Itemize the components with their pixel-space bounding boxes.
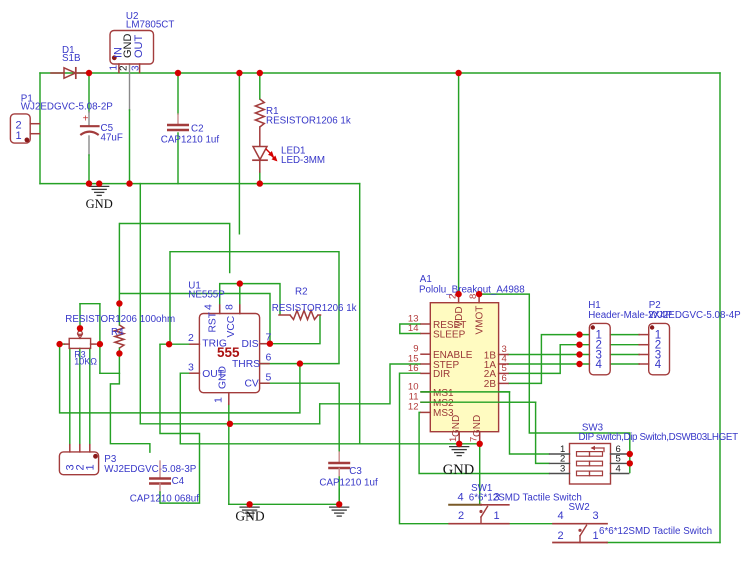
- svg-text:GND: GND: [443, 462, 474, 478]
- resistor R2 RESISTOR1206 1k: [272, 287, 357, 320]
- svg-text:C2: C2: [191, 124, 204, 135]
- wire R3 wiper column: [79, 304, 81, 331]
- wire U2 GND pin column to GND rail: [129, 64, 131, 184]
- potentiometer R3 10KQ: [65, 331, 98, 366]
- switch SW1 tactile: [449, 483, 582, 524]
- resistor R4 RESISTOR1206 100ohm: [65, 314, 175, 348]
- ground GND (555 rail): [235, 504, 264, 523]
- svg-text:H1: H1: [588, 300, 601, 311]
- svg-text:2: 2: [558, 530, 564, 542]
- wire THRS down + y=412.9 line + R3 left column: [60, 344, 300, 413]
- svg-text:RESISTOR1206 100ohm: RESISTOR1206 100ohm: [65, 314, 175, 325]
- svg-text:GND: GND: [451, 415, 462, 437]
- op-amp U1 NE555P (555 timer): [188, 281, 272, 405]
- svg-text:8: 8: [224, 304, 236, 310]
- wire CV row to C3 column: [260, 383, 339, 504]
- svg-text:47uF: 47uF: [101, 133, 123, 144]
- svg-text:DIR: DIR: [433, 369, 450, 380]
- svg-text:6*6*12SMD Tactile Switch: 6*6*12SMD Tactile Switch: [599, 526, 712, 537]
- connector H1 Header-Male-2X4P: [588, 300, 672, 375]
- svg-text:4: 4: [558, 510, 564, 522]
- capacitor C3 CAP1210 1uf: [319, 452, 378, 504]
- svg-text:CAP1210 1uf: CAP1210 1uf: [161, 134, 220, 145]
- svg-text:6: 6: [266, 352, 272, 364]
- capacitor C4 CAP1210 068uf: [130, 461, 199, 505]
- wire reg/R3 bracket y=303.7: [80, 303, 100, 305]
- IC A1 Pololu_Breakout_A4988: [408, 274, 525, 444]
- wire 1B to H1 pin3 row: [508, 354, 589, 356]
- svg-text:1: 1: [85, 464, 97, 470]
- svg-text:2: 2: [188, 332, 194, 344]
- svg-text:R4: R4: [111, 327, 124, 338]
- wire R3 left lead: [60, 343, 65, 345]
- wire x=360 GND column: [359, 184, 361, 444]
- svg-text:OUT: OUT: [133, 35, 145, 59]
- wire MS2 to DIP pin2: [421, 402, 550, 463]
- capacitor C2 CAP1210 1uf: [161, 124, 220, 146]
- wire DIR net to SW1: [400, 373, 450, 524]
- wire GND7 column to SW1 top: [479, 444, 481, 505]
- wire x=140 GND column: [139, 184, 141, 424]
- svg-text:GND: GND: [217, 366, 228, 389]
- wire H1 to P2 row2: [610, 344, 639, 346]
- svg-text:GND: GND: [235, 509, 264, 524]
- svg-text:1: 1: [593, 530, 599, 542]
- wire bottom GND rail y=504.3: [229, 503, 339, 505]
- svg-text:12: 12: [408, 402, 419, 413]
- wire MS1 to DIP pin1: [421, 392, 550, 454]
- wire C5 column: [88, 73, 90, 184]
- wire P3 pin columns to R3 underside: [70, 348, 90, 444]
- svg-text:16: 16: [408, 363, 419, 374]
- svg-text:10KΩ: 10KΩ: [74, 356, 97, 366]
- diode D1 S1B: [51, 45, 88, 78]
- svg-text:6*6*12SMD Tactile Switch: 6*6*12SMD Tactile Switch: [469, 492, 582, 503]
- svg-text:SLEEP: SLEEP: [433, 329, 466, 340]
- svg-text:5: 5: [266, 372, 272, 384]
- svg-text:C3: C3: [349, 466, 362, 477]
- wire 1A to H1 pin4 row: [508, 363, 589, 365]
- svg-text:A1: A1: [420, 274, 432, 285]
- svg-text:6: 6: [502, 373, 507, 384]
- wire right edge column x=720 (rail to SW2): [719, 73, 721, 543]
- svg-text:RESISTOR1206 1k: RESISTOR1206 1k: [266, 116, 351, 127]
- wire VMOT net to DIP commons: [479, 294, 630, 473]
- wire R3 right column: [99, 304, 101, 374]
- wire R2 right to DIS: [260, 315, 320, 344]
- wire SW2 bottom to right edge column: [607, 542, 720, 544]
- wire RESET-SLEEP tie U: [400, 324, 421, 334]
- wire R3R/R4 U-bottom y=373.3: [100, 372, 120, 374]
- svg-text:RST: RST: [208, 311, 219, 332]
- wire SW1 to SW2 link: [509, 523, 553, 525]
- wire GND branch y=423.8 to 555 gnd and step riser: [140, 404, 319, 424]
- wire MS2 overlay (over A4988 box): [421, 401, 536, 403]
- wire VCC/RST/R2 net y=283.6: [220, 284, 280, 315]
- svg-text:4: 4: [203, 304, 215, 310]
- capacitor C5 47uF: [80, 114, 123, 144]
- svg-text:14: 14: [408, 323, 419, 334]
- wire VDD column x=458.6: [458, 73, 460, 294]
- svg-text:C4: C4: [172, 476, 185, 487]
- wire GND line y=443.8 to A4988 GND pins: [180, 443, 479, 445]
- wire 2B to H1 pin1: [508, 335, 589, 384]
- svg-text:4: 4: [596, 359, 603, 371]
- svg-text:4: 4: [458, 491, 464, 503]
- regulator U2 LM7805CT: [109, 11, 175, 73]
- wire C2 column: [177, 73, 179, 184]
- wire STEP net y=403.8: [320, 364, 421, 404]
- svg-text:LM7805CT: LM7805CT: [126, 20, 174, 31]
- svg-text:CAP1210 068uf: CAP1210 068uf: [130, 494, 199, 505]
- wire THRS row: [260, 363, 339, 365]
- svg-text:+: +: [83, 114, 89, 125]
- svg-text:3: 3: [494, 491, 500, 503]
- wire R4 top net: corner to dangling end x=229.7: [119, 224, 229, 274]
- wire P1 column x=40: [39, 73, 41, 184]
- wire THRS-TRIG tie y=251.7: [170, 252, 339, 364]
- ground GND (A4988): [443, 444, 474, 478]
- wire MS1 overlay (over A4988 box): [421, 391, 510, 393]
- svg-text:R2: R2: [295, 287, 308, 298]
- svg-text:WJ2EDGVC-5.08-3P: WJ2EDGVC-5.08-3P: [104, 464, 196, 475]
- ground (C3): [330, 504, 349, 516]
- wire top +V rail from P1 to right corner: [40, 72, 720, 74]
- wire 555 GND column: [228, 404, 230, 504]
- svg-text:THRS: THRS: [232, 359, 260, 370]
- svg-text:VDD: VDD: [454, 306, 465, 327]
- svg-text:S1B: S1B: [62, 53, 81, 64]
- wire GND rail y=183.6: [40, 183, 360, 185]
- svg-text:SW2: SW2: [569, 502, 590, 513]
- svg-text:3: 3: [593, 510, 599, 522]
- wire 2A to H1 pin2: [508, 345, 589, 374]
- svg-text:4: 4: [616, 464, 621, 475]
- connector P1 WJ2EDGVC-5.08-2P: [10, 93, 113, 143]
- wire TRIG row: [160, 343, 190, 345]
- svg-text:4: 4: [655, 359, 662, 371]
- svg-text:GND: GND: [86, 197, 113, 211]
- wire H1 to P2 row1: [610, 334, 639, 336]
- connector P3 WJ2EDGVC-5.08-3P: [59, 445, 196, 475]
- svg-text:2B: 2B: [484, 379, 497, 390]
- svg-text:LED-3MM: LED-3MM: [281, 155, 325, 166]
- wire R4 column: [118, 224, 120, 374]
- svg-text:CAP1210 1uf: CAP1210 1uf: [319, 478, 378, 489]
- svg-text:VCC: VCC: [226, 315, 237, 337]
- svg-text:WJ2EDGVC-5.08-4P: WJ2EDGVC-5.08-4P: [649, 310, 741, 321]
- connector P2 WJ2EDGVC-5.08-4P: [639, 300, 741, 375]
- wire MS3 to DIP pin3: [419, 412, 549, 473]
- switch SW2 tactile: [553, 502, 712, 543]
- wire H1 to P2 row3: [610, 354, 639, 356]
- wire H1 to P2 row4: [610, 363, 639, 365]
- wire VCC feed stub x=239.4 (dangling): [238, 73, 240, 234]
- svg-text:VMOT: VMOT: [475, 306, 486, 335]
- svg-text:1: 1: [494, 510, 500, 522]
- ground GND (input rail): [86, 184, 113, 211]
- svg-text:WJ2EDGVC-5.08-2P: WJ2EDGVC-5.08-2P: [21, 101, 113, 112]
- svg-text:CV: CV: [245, 379, 259, 390]
- svg-text:RESISTOR1206 1k: RESISTOR1206 1k: [272, 303, 357, 314]
- svg-text:TRIG: TRIG: [202, 339, 227, 350]
- svg-text:1: 1: [213, 397, 225, 403]
- wire STEP stub row: [0, 0, 1, 1]
- LED LED1 LED-3MM: [253, 146, 325, 173]
- wire R4-to-DIS net y=293.5: [119, 294, 270, 344]
- switch SW3 DIP DSWB03LHGET: [550, 423, 738, 484]
- wire R1/LED column: [259, 73, 261, 184]
- svg-text:2: 2: [458, 510, 464, 522]
- svg-text:GND: GND: [472, 415, 483, 437]
- svg-text:DIP switch,Dip Switch,DSWB03LH: DIP switch,Dip Switch,DSWB03LHGET: [579, 432, 739, 443]
- svg-text:3: 3: [560, 464, 565, 475]
- svg-text:2: 2: [119, 65, 130, 71]
- wire OUT row and OUT column: [180, 373, 190, 444]
- svg-text:DIS: DIS: [242, 339, 259, 350]
- svg-text:3: 3: [188, 362, 194, 374]
- svg-text:1: 1: [16, 130, 22, 142]
- resistor R1 RESISTOR1206 1k: [255, 99, 351, 146]
- svg-text:3: 3: [131, 65, 142, 71]
- svg-text:P2: P2: [649, 300, 661, 311]
- svg-text:NE555P: NE555P: [188, 290, 225, 301]
- wire R4 bottom jog to dangling stub: [110, 373, 149, 453]
- wire TRIG to C4 bottom loop: [160, 344, 200, 503]
